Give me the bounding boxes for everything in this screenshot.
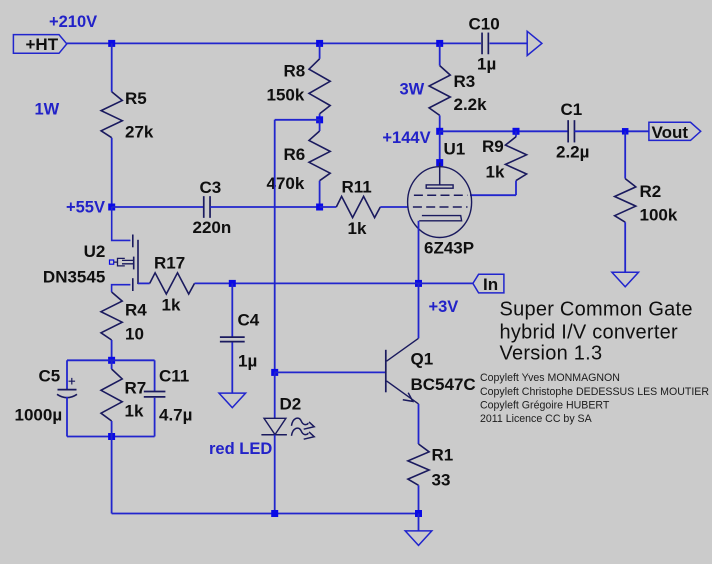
resistor R8 [309, 59, 330, 114]
wire R9 top lead [515, 131, 517, 137]
wire R5 top lead [111, 43, 113, 91]
mosfet U2 channel [137, 240, 139, 284]
node junction R9 top [513, 128, 520, 135]
svg-text:+HT: +HT [26, 35, 59, 54]
wire R2 bottom lead [624, 222, 626, 272]
wire R7 top lead [111, 360, 113, 369]
svg-text:BC547C: BC547C [411, 375, 476, 394]
svg-text:R2: R2 [640, 182, 662, 201]
svg-text:Super Common Gate: Super Common Gate [500, 299, 693, 321]
resistor R11 horizontal [336, 196, 380, 217]
wire cathode lead down to In node [418, 221, 420, 284]
wire Q1 base lead [275, 371, 386, 373]
svg-text:R17: R17 [154, 253, 185, 272]
node junction Q1 base tee [271, 369, 278, 376]
wire U2 source lead [112, 285, 131, 292]
wire R3 bottom lead [439, 115, 441, 131]
svg-text:Copyleft Christophe DEDESSUS L: Copyleft Christophe DEDESSUS LES MOUTIER [480, 386, 709, 398]
wire R9 to tube grid2 [470, 194, 516, 196]
node junction R8/R6 [316, 116, 323, 123]
node top rail junction at R8 [316, 40, 323, 47]
wire C4 bottom lead [231, 342, 233, 393]
capacitor C5 top lead [66, 360, 68, 389]
node junction C3/R6/R11 [316, 204, 323, 211]
svg-text:R3: R3 [454, 72, 476, 91]
svg-text:R7: R7 [125, 378, 147, 397]
node junction D2 bottom [271, 510, 278, 517]
diode D2 cathode bar [261, 434, 287, 436]
mosfet U2 gate bar [133, 257, 135, 270]
wire R7 bottom lead [111, 421, 113, 437]
svg-text:Copyleft Yves MONMAGNON: Copyleft Yves MONMAGNON [480, 372, 620, 384]
svg-text:1µ: 1µ [238, 351, 257, 370]
wire bottom rail riser [111, 437, 113, 514]
svg-text:2011 Licence CC by SA: 2011 Licence CC by SA [480, 413, 593, 425]
wire feedback vertical down [274, 120, 276, 373]
resistor R5 [101, 92, 122, 138]
led D2 light arrow 1 [292, 418, 315, 429]
svg-text:R8: R8 [284, 61, 306, 80]
wire U2 channel to R17 [138, 282, 150, 284]
svg-text:+55V: +55V [66, 198, 105, 216]
mosfet U2 source bar [132, 278, 134, 291]
svg-text:10: 10 [125, 324, 144, 343]
node +144V junction at R3 [436, 128, 443, 135]
wire parallel block top rail [67, 359, 155, 361]
svg-text:C5: C5 [39, 366, 61, 385]
svg-text:1k: 1k [486, 162, 505, 181]
svg-text:+3V: +3V [429, 298, 459, 316]
svg-text:1µ: 1µ [477, 55, 496, 74]
wire R11 to tube grid [380, 206, 408, 208]
resistor R1 [408, 444, 429, 485]
wire R5 bottom lead [111, 138, 113, 207]
svg-text:1k: 1k [125, 401, 144, 420]
svg-text:C3: C3 [200, 178, 222, 197]
resistor R6 [309, 131, 330, 181]
wire plate lead from +144V [439, 131, 441, 163]
svg-text:4.7µ: 4.7µ [159, 406, 192, 425]
mosfet U2 gate plug [114, 258, 133, 266]
capacitor C5 curved plate [57, 394, 77, 397]
resistor R3 [429, 66, 450, 116]
svg-text:U2: U2 [84, 242, 106, 261]
capacitor C5 plus plate [58, 389, 77, 391]
wire R3 top lead [439, 43, 441, 65]
diode D2 triangle [264, 418, 286, 434]
wire +55V to C3 [112, 206, 204, 208]
resistor R2 [615, 179, 636, 223]
node junction Vout/R2 [622, 128, 629, 135]
svg-text:33: 33 [432, 470, 451, 489]
svg-text:1k: 1k [348, 219, 367, 238]
tube U1 plate lead inside [439, 163, 441, 185]
tube U1 envelope [408, 167, 472, 238]
svg-text:D2: D2 [280, 394, 302, 413]
wire parallel block bottom rail [67, 436, 155, 438]
transistor Q1 base bar [385, 350, 387, 393]
svg-text:100k: 100k [640, 205, 678, 224]
capacitor C1 plates [567, 120, 569, 142]
svg-text:R4: R4 [125, 300, 147, 319]
svg-text:R11: R11 [342, 177, 372, 196]
port Vout tag [649, 122, 701, 140]
capacitor C11 top lead [154, 360, 156, 391]
svg-text:2.2µ: 2.2µ [556, 142, 589, 161]
svg-text:1W: 1W [35, 101, 60, 119]
wire +144V rail to C1 [440, 130, 569, 132]
tube U1 grid 2 dashed [414, 194, 468, 196]
wire C3 to R6 junction [210, 206, 320, 208]
transistor Q1 collector diagonal [387, 338, 419, 361]
svg-text:1000µ: 1000µ [15, 406, 63, 425]
wire D2 anode lead [274, 372, 276, 418]
node +55V junction [108, 204, 115, 211]
resistor R17 horizontal [150, 273, 195, 294]
svg-text:+210V: +210V [49, 13, 97, 31]
svg-text:2.2k: 2.2k [454, 95, 488, 114]
svg-text:1k: 1k [162, 295, 181, 314]
port +HT tag [13, 35, 66, 54]
svg-text:C11: C11 [159, 366, 189, 385]
port output arrow after C10 [527, 31, 542, 55]
wire R6 bottom lead [319, 181, 321, 207]
transistor Q1 emitter diagonal [387, 381, 419, 404]
capacitor C3 plates [203, 196, 205, 218]
ground below R2 [612, 272, 639, 287]
resistor R4 [101, 292, 122, 340]
wire ground lead [418, 514, 420, 531]
svg-text:470k: 470k [267, 174, 305, 193]
wire U2 drain lead from +55V [112, 207, 131, 240]
svg-text:C1: C1 [561, 100, 583, 119]
wire R11 left lead [320, 206, 337, 208]
svg-text:R1: R1 [432, 445, 454, 464]
svg-text:C4: C4 [238, 310, 260, 329]
tube U1 anode plate [426, 185, 453, 188]
wire R9 bottom lead [515, 181, 517, 196]
ground main bottom [405, 531, 432, 546]
wire bottom rail horizontal [112, 513, 419, 515]
capacitor C5 bottom lead [66, 397, 68, 437]
capacitor C11 bottom lead [154, 398, 156, 437]
svg-text:In: In [483, 275, 498, 294]
capacitor C11 plates [144, 391, 166, 393]
svg-text:DN3545: DN3545 [43, 268, 105, 287]
mosfet U2 gate pin square [110, 260, 114, 264]
wire +HT top rail left of C10 [67, 42, 481, 44]
resistor R9 [505, 137, 526, 181]
svg-text:220n: 220n [193, 218, 232, 237]
svg-text:150k: 150k [267, 86, 305, 105]
led D2 light arrow 2 [292, 428, 315, 439]
node junction In/cathode/collector [415, 280, 422, 287]
port In tag [473, 274, 504, 293]
wire D2 cathode lead [274, 435, 276, 514]
capacitor C5 plus sign [69, 378, 76, 385]
node junction C4 top [229, 280, 236, 287]
svg-text:R9: R9 [482, 137, 504, 156]
tube U1 cathode [419, 216, 461, 221]
wire R8 top lead [319, 43, 321, 58]
svg-text:Vout: Vout [652, 123, 689, 142]
svg-text:red LED: red LED [209, 440, 272, 458]
wire R1 bottom lead [418, 485, 420, 513]
svg-text:U1: U1 [444, 139, 466, 158]
node +HT junction at R5 [108, 40, 115, 47]
wire top rail C10 to arrow [490, 42, 528, 44]
svg-text:+144V: +144V [382, 129, 430, 147]
wire R6 top lead [319, 120, 321, 131]
node junction parallel block bottom [108, 433, 115, 440]
svg-text:C10: C10 [469, 15, 500, 34]
node junction R1 bottom [415, 510, 422, 517]
node junction R4 / parallel block top [108, 357, 115, 364]
wire R4 bottom lead [111, 340, 113, 360]
svg-text:R6: R6 [284, 145, 306, 164]
svg-text:Copyleft Grégoire HUBERT: Copyleft Grégoire HUBERT [480, 400, 610, 412]
wire feedback horizontal to x275 [275, 119, 320, 121]
wire C4 top lead [231, 283, 233, 336]
svg-text:Version 1.3: Version 1.3 [500, 343, 603, 365]
svg-text:hybrid I/V converter: hybrid I/V converter [500, 322, 678, 344]
wire R17 to In node [195, 282, 419, 284]
wire In node to In tag [419, 282, 473, 284]
svg-text:27k: 27k [125, 123, 154, 142]
wire R8 bottom lead [319, 114, 321, 120]
capacitor C4 plates [220, 336, 245, 338]
tube U1 grid 1 dashed [413, 206, 468, 208]
svg-text:Q1: Q1 [411, 350, 434, 369]
wire R2 top lead [624, 131, 626, 178]
wire Q1 emitter down to R1 [418, 404, 420, 444]
node top rail junction at R3/C10 [436, 40, 443, 47]
ground below C4 [219, 393, 246, 408]
svg-text:3W: 3W [400, 81, 425, 99]
wire Q1 collector up to In node [418, 283, 420, 338]
wire C1 to Vout [574, 130, 649, 132]
capacitor C10 plates [481, 33, 483, 55]
resistor R7 [101, 369, 122, 421]
node junction tube plate [436, 159, 443, 166]
transistor Q1 emitter arrow [403, 393, 413, 402]
svg-text:6Z43P: 6Z43P [424, 238, 474, 257]
mosfet U2 drain bar [132, 235, 134, 248]
svg-text:R5: R5 [125, 89, 147, 108]
